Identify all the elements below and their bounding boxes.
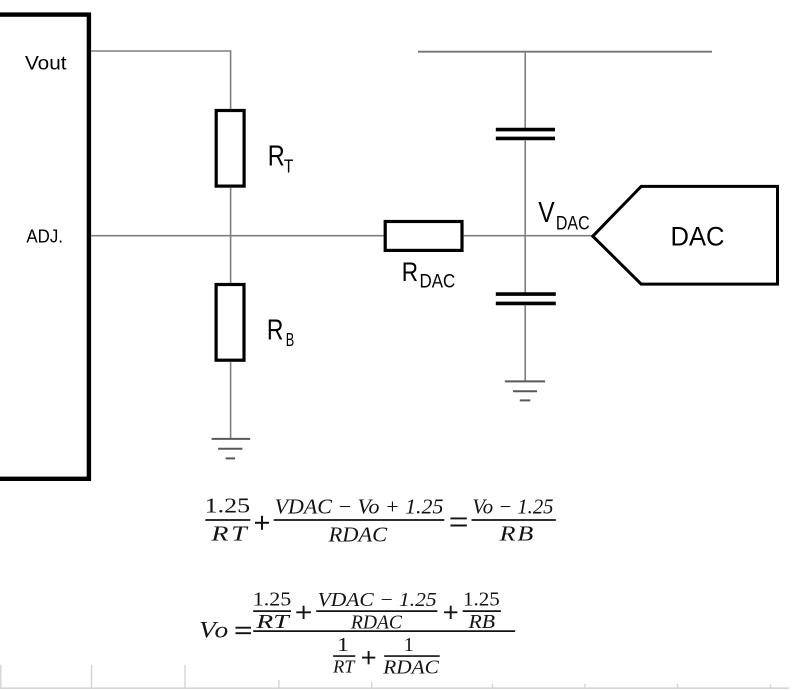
svg-text:1.25: 1.25: [463, 590, 500, 611]
spreadsheet gridline tick col G: [584, 684, 586, 688]
DAC block U2 pentagon: [593, 186, 778, 284]
regulator IC U1 box: [0, 15, 89, 479]
wire RB to ground: [230, 362, 232, 439]
svg-text:Vo − 1.25: Vo − 1.25: [472, 494, 553, 518]
spreadsheet gridline tick col F: [492, 684, 494, 688]
label RDAC: [402, 257, 456, 292]
wire Vout down to RT: [230, 51, 232, 110]
svg-text:RB: RB: [498, 522, 535, 546]
ground symbol G1: [212, 439, 251, 459]
svg-text:ADJ.: ADJ.: [26, 227, 63, 247]
wire ADJ node down to RB: [230, 236, 232, 284]
wire RDAC to DAC node: [464, 235, 593, 237]
equation 1: 1.25/RT + (VDAC-Vo+1.25)/RDAC = (Vo-1.25)/RB: [205, 494, 556, 547]
node label VDAC: [538, 197, 589, 235]
svg-text:RB: RB: [467, 612, 495, 633]
svg-text:Vo: Vo: [199, 617, 230, 642]
svg-text:RDAC: RDAC: [382, 658, 440, 679]
svg-text:R: R: [402, 257, 418, 287]
capacitor C1: [496, 130, 555, 139]
top rail wire: [418, 51, 712, 53]
svg-text:VDAC − 1.25: VDAC − 1.25: [318, 590, 437, 611]
svg-text:RT: RT: [255, 612, 290, 633]
pin label Vout: [25, 53, 67, 75]
svg-text:1.25: 1.25: [253, 590, 291, 611]
spreadsheet gridline tick col C: [184, 665, 186, 688]
spreadsheet gridline tick col A: [0, 665, 2, 688]
resistor RB: [216, 285, 244, 361]
svg-text:R: R: [267, 315, 284, 347]
svg-text:VDAC − Vo + 1.25: VDAC − Vo + 1.25: [275, 494, 444, 518]
wire RT to ADJ node: [230, 188, 232, 237]
ground symbol G2: [505, 381, 545, 400]
resistor RDAC: [385, 222, 462, 251]
capacitor C2: [496, 294, 556, 303]
equation 2: Vo = (1.25/RT + (VDAC-1.25)/RDAC + 1.25/RB) / (1/RT + 1/RDAC): [199, 590, 515, 679]
wire Vout horizontal: [91, 50, 231, 52]
svg-text:T: T: [284, 156, 294, 176]
wire ADJ horizontal: [91, 235, 385, 237]
spreadsheet gridline tick col B: [91, 665, 93, 688]
resistor RT: [216, 111, 244, 187]
svg-text:RT: RT: [332, 656, 356, 676]
svg-text:1: 1: [337, 635, 349, 656]
wire rail down to C1: [524, 52, 526, 129]
svg-text:B: B: [286, 330, 295, 350]
wire C1 to node VDAC and down to C2: [524, 140, 526, 292]
svg-text:1.25: 1.25: [205, 494, 251, 518]
svg-text:V: V: [538, 197, 554, 229]
label DAC: [671, 222, 725, 252]
pin label ADJ.: [26, 227, 63, 247]
svg-text:Vout: Vout: [25, 53, 67, 75]
label RB: [267, 315, 294, 351]
svg-text:DAC: DAC: [556, 213, 590, 235]
spreadsheet gridline tick col I: [770, 684, 772, 687]
svg-text:1: 1: [404, 635, 414, 656]
svg-text:DAC: DAC: [420, 271, 456, 292]
svg-text:RDAC: RDAC: [328, 523, 389, 547]
spreadsheet gridline tick col E: [371, 683, 373, 688]
label RT: [268, 141, 294, 177]
svg-text:RT: RT: [210, 522, 249, 546]
wire C2 to ground: [524, 305, 526, 381]
spreadsheet gridline tick col D: [278, 680, 280, 688]
svg-text:R: R: [268, 141, 285, 173]
spreadsheet gridline tick col H: [677, 684, 679, 688]
svg-text:DAC: DAC: [671, 222, 725, 252]
spreadsheet gridline horizontal bottom: [0, 687, 789, 689]
